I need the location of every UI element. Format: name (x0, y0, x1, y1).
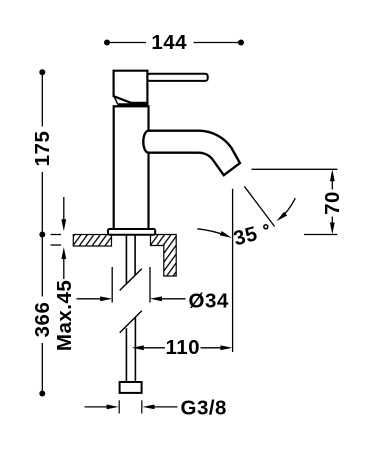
lower break slash (120, 311, 142, 333)
dimension 144 line left segment (107, 42, 146, 44)
handle lever (147, 74, 207, 81)
svg-text:366: 366 (31, 302, 54, 338)
dimension 144 line right segment (194, 42, 242, 44)
Max.45 deck-bottom tick (51, 244, 62, 246)
faucet spout (143, 131, 240, 176)
70 dim top reference line (252, 168, 338, 170)
Max.45 lower arrow line (63, 259, 65, 279)
110 dim right line (201, 347, 221, 349)
G3/8 right tick (141, 400, 143, 413)
70 dim lower arrowhead (down) (330, 223, 335, 235)
35 deg right leader arc (281, 198, 296, 218)
dimension 175 line upper segment (41, 72, 43, 126)
35 deg left leader arc (197, 229, 227, 236)
G3/8 dim left arrowhead (right) (107, 405, 119, 410)
dimension 366 line lower segment (41, 343, 43, 394)
dimension 175 bottom dot (deck level) (39, 232, 45, 238)
deck right hatched L-block (151, 235, 177, 277)
dimension 144 left dot (104, 40, 110, 46)
vertical projection line below spout (232, 189, 234, 352)
dia34 left arrowhead (right) (100, 296, 112, 301)
supply hose left line (125, 328, 127, 381)
threaded shank right line (134, 235, 136, 276)
110 dim left line (144, 347, 165, 349)
upper break slash (120, 269, 142, 291)
Max.45 upper arrow line (63, 197, 65, 221)
dia34 right arrow line (162, 298, 186, 300)
svg-text:Max.45: Max.45 (53, 280, 76, 351)
handle collar left slant (114, 97, 118, 105)
deck left hatched block (73, 235, 111, 247)
35 deg right arrowhead (275, 212, 287, 223)
Max.45 lower arrowhead (up) (61, 247, 66, 259)
svg-text:70: 70 (321, 191, 344, 215)
base flange (108, 229, 155, 235)
svg-text:Ø34: Ø34 (189, 290, 229, 313)
G3/8 dim right line (154, 406, 177, 408)
70 dim bottom reference line (304, 234, 337, 236)
handle head (114, 71, 148, 103)
dimension 144 right dot (238, 40, 244, 46)
35 deg stream line (244, 186, 274, 226)
Max.45 deck-top tick (51, 234, 62, 236)
dimension 175 line lower segment (41, 172, 43, 235)
110 dim right arrowhead (right) (220, 345, 232, 350)
G3/8 fitting (120, 382, 142, 393)
110 dim left arrowhead (left) (132, 345, 144, 350)
70 dim upper arrowhead (up) (330, 169, 335, 181)
handle collar (118, 103, 149, 105)
svg-text:144: 144 (151, 31, 187, 54)
svg-text:G3/8: G3/8 (181, 396, 227, 419)
70 dim line lower segment (331, 217, 333, 224)
dimension 175 top dot (39, 69, 45, 75)
threaded shank left line (125, 235, 127, 284)
G3/8 dim left line (85, 406, 107, 408)
35 deg left arrowhead (220, 231, 233, 240)
dia34 left extension line (111, 267, 113, 303)
Max.45 upper arrowhead (down) (61, 219, 66, 231)
svg-text:175: 175 (31, 131, 54, 167)
dimension 366 line upper segment (41, 235, 43, 297)
faucet body (114, 106, 149, 229)
70 dim line upper segment (331, 181, 333, 190)
svg-text:110: 110 (166, 336, 201, 359)
supply hose right line (134, 318, 136, 382)
dia34 right extension line (149, 267, 151, 303)
dia34 left arrow line (77, 298, 102, 300)
G3/8 dim right arrowhead (left) (143, 405, 155, 410)
dimension 366 bottom dot (39, 391, 45, 397)
G3/8 left tick (118, 400, 120, 413)
dia34 right arrowhead (left) (150, 296, 162, 301)
degree symbol (264, 225, 268, 229)
